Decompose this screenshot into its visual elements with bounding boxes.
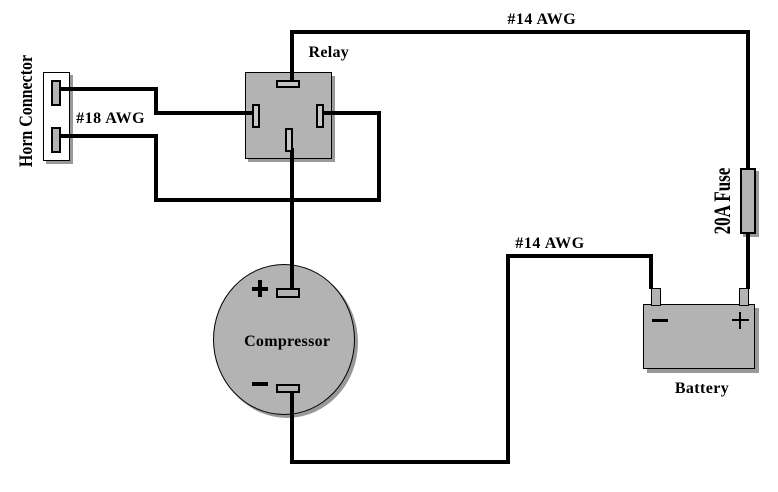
- relay K1 body: [245, 72, 332, 159]
- wire: middle vertical riser: [506, 254, 510, 464]
- relay pin 86 (left): [252, 104, 260, 128]
- wire: bottom loop horizontal under relay: [154, 198, 380, 202]
- battery positive polarity mark: [732, 312, 749, 329]
- battery BT1 positive terminal post: [739, 288, 749, 306]
- horn connector pin 2: [51, 127, 61, 153]
- horn connector body: [43, 72, 70, 161]
- label: #18 AWG wire gauge: [76, 110, 145, 128]
- fuse F1 shadow: [743, 171, 759, 237]
- label: Horn Connector: [16, 55, 38, 167]
- relay pin 87 (right): [316, 104, 324, 128]
- compressor M1 body: [213, 264, 355, 415]
- wire: relay bottom pin 85 down to compressor positive terminal: [290, 148, 294, 289]
- label: Battery: [675, 380, 729, 398]
- wire: relay top pin 30 vertical up: [290, 30, 294, 84]
- horn connector pin 1: [51, 80, 61, 106]
- wire: middle #14 AWG horizontal run to battery: [506, 254, 653, 258]
- wire: fuse bottom to battery positive terminal: [746, 232, 750, 289]
- label: #14 AWG wire gauge (top run): [507, 11, 576, 29]
- wire: horn connector top pin horizontal segment (#18 AWG): [58, 87, 158, 91]
- battery BT1 negative terminal post: [651, 288, 661, 306]
- compressor positive polarity mark: [252, 280, 268, 297]
- wire: horizontal into relay left pin 86: [154, 111, 253, 115]
- battery negative polarity mark: [652, 319, 668, 322]
- compressor negative polarity mark: [252, 382, 268, 386]
- relay pin 85 (bottom): [285, 128, 293, 152]
- compressor positive terminal: [276, 288, 300, 298]
- horn connector shadow: [46, 75, 73, 164]
- label: Relay: [308, 44, 349, 62]
- relay pin 30 (top): [276, 80, 300, 88]
- relay K1 shadow: [248, 76, 335, 163]
- battery BT1 shadow: [647, 308, 759, 373]
- wire: loop right vertical up to relay right pin wire: [377, 111, 381, 203]
- label: Compressor: [244, 333, 330, 351]
- wire: relay right pin 87 horizontal: [322, 111, 380, 115]
- wire: horn connector bottom pin horizontal segment (#18 AWG): [58, 134, 158, 138]
- fuse F1 20A body: [740, 168, 756, 234]
- wire: bottom horizontal run from compressor: [290, 460, 510, 464]
- wire: vertical drop from horn bottom wire: [154, 134, 158, 202]
- compressor negative terminal: [276, 384, 300, 393]
- wire: vertical drop to battery negative terminal: [649, 254, 653, 289]
- wire: vertical step down from horn top wire: [154, 87, 158, 114]
- battery BT1 body: [643, 304, 755, 369]
- compressor M1 shadow: [216, 267, 358, 418]
- label: #14 AWG wire gauge (middle run): [515, 235, 585, 253]
- label: 20A Fuse: [710, 167, 736, 234]
- wire: top #14 AWG horizontal run: [290, 30, 750, 34]
- wire: compressor negative terminal vertical down: [290, 392, 294, 464]
- wire: right vertical down to fuse top: [746, 30, 750, 168]
